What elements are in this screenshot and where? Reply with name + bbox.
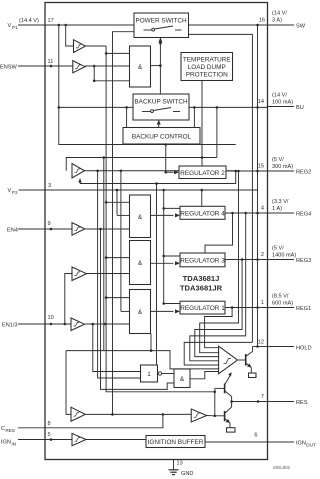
regulator 2 U-R2 bbox=[179, 166, 226, 179]
svg-text:OUT: OUT bbox=[306, 443, 316, 448]
wire mon REG3 bbox=[200, 171, 239, 353]
svg-text:15: 15 bbox=[258, 164, 264, 170]
wire G1 in1 bbox=[106, 52, 129, 54]
wire REG2 in arrow bbox=[165, 145, 167, 173]
wire ENSW row bbox=[45, 65, 73, 67]
wire G1 out bbox=[151, 65, 161, 67]
wire BC top feed bbox=[126, 107, 128, 127]
wire G5 out bbox=[162, 373, 174, 375]
svg-text:RES: RES bbox=[6, 428, 15, 433]
svg-text:TDA3681J: TDA3681J bbox=[183, 274, 220, 283]
svg-text:C: C bbox=[1, 426, 5, 432]
svg-text:(8.5 V/: (8.5 V/ bbox=[272, 294, 289, 300]
svg-text:ENSW: ENSW bbox=[0, 65, 18, 71]
svg-text:1: 1 bbox=[261, 300, 264, 306]
svg-text:4: 4 bbox=[261, 206, 264, 212]
svg-text:REGULATOR 2: REGULATOR 2 bbox=[180, 170, 225, 177]
wire trunk x103.8 bbox=[103, 158, 105, 351]
transistor Q2 (RES upper) bbox=[215, 372, 232, 401]
pin 5 stub IGNIN bbox=[1, 432, 51, 447]
svg-text:12: 12 bbox=[258, 340, 264, 346]
svg-text:3: 3 bbox=[48, 183, 51, 189]
wire CRES row bbox=[45, 414, 163, 427]
svg-text:TDA3681JR: TDA3681JR bbox=[180, 284, 223, 293]
node A3 enable arrow bbox=[79, 179, 81, 184]
pin 9 stub EN4 bbox=[7, 221, 51, 234]
svg-text:BACKUP CONTROL: BACKUP CONTROL bbox=[132, 134, 192, 141]
svg-text:5: 5 bbox=[48, 432, 51, 438]
wire G4 in1 bbox=[106, 297, 129, 299]
wire BC to BS arrow bbox=[158, 120, 160, 128]
svg-text:1400 mA): 1400 mA) bbox=[272, 253, 296, 259]
wire G2 in3 EN4 bbox=[85, 228, 129, 230]
svg-text:REGULATOR 3: REGULATOR 3 bbox=[180, 257, 225, 264]
svg-text:POWER SWITCH: POWER SWITCH bbox=[135, 18, 187, 25]
resistor R1 (Q1 emitter) bbox=[249, 373, 257, 378]
svg-text:11: 11 bbox=[48, 59, 54, 65]
svg-text:&: & bbox=[138, 64, 143, 71]
pin 14 stub BU bbox=[258, 93, 304, 112]
wire long row 350 bbox=[66, 351, 219, 369]
svg-text:2: 2 bbox=[261, 252, 264, 258]
buffer A1 (VP1) bbox=[66, 25, 86, 53]
and gate G2 bbox=[130, 195, 151, 238]
wire IGNIN row bbox=[45, 439, 72, 441]
wire REG2 out bbox=[226, 170, 268, 172]
wire G4 tap to long row bbox=[150, 334, 152, 351]
svg-text:IN: IN bbox=[12, 442, 17, 447]
svg-text:P2: P2 bbox=[12, 190, 18, 195]
svg-text:V: V bbox=[8, 23, 12, 29]
wire trunk x106.1 bbox=[106, 46, 215, 392]
wire G3 in1 bbox=[106, 257, 129, 259]
svg-text:TEMPERATURE: TEMPERATURE bbox=[183, 57, 231, 64]
schmitt trigger A6 (CRES) bbox=[191, 409, 206, 422]
pin 6 stub IGNOUT bbox=[254, 433, 316, 448]
wire RES row bbox=[232, 401, 268, 403]
transistor Q3 (RES lower) bbox=[215, 402, 232, 428]
transistor Q1 (HOLD driver) bbox=[246, 347, 253, 374]
pin 8 stub CRES bbox=[1, 421, 51, 433]
node A5 out bbox=[92, 323, 95, 326]
svg-text:17: 17 bbox=[48, 18, 54, 24]
svg-text:9: 9 bbox=[48, 221, 51, 227]
wire trunk x94.2 bbox=[93, 66, 95, 81]
wire REG4 out bbox=[225, 212, 268, 214]
wire VP2 buffered bbox=[85, 170, 236, 172]
svg-text:10: 10 bbox=[48, 315, 54, 321]
power switch U-PS bbox=[134, 13, 189, 38]
svg-text:EN1/3: EN1/3 bbox=[2, 323, 18, 329]
resistor R2 (Q3 emitter) bbox=[227, 428, 236, 432]
backup switch U-BS bbox=[133, 94, 189, 120]
wire G2 in2 bbox=[117, 214, 130, 216]
svg-text:13: 13 bbox=[177, 461, 183, 467]
pin 10 stub EN1/3 bbox=[2, 315, 54, 329]
pin 15 stub REG2 bbox=[258, 157, 311, 176]
wire REG3 top loop bbox=[205, 213, 233, 253]
op-amp U-CMP bbox=[219, 346, 238, 374]
wire G4 in2 bbox=[121, 310, 130, 312]
wire G1 in3 bbox=[94, 80, 129, 82]
svg-text:(5 V/: (5 V/ bbox=[272, 246, 284, 252]
wire BS input bbox=[59, 106, 133, 108]
wire PS aux out bbox=[189, 34, 253, 342]
ground pin 13 bbox=[169, 460, 194, 478]
svg-text:(14 V/: (14 V/ bbox=[272, 11, 287, 17]
wire EN4 row bbox=[45, 228, 72, 230]
wire REG3 top-left input bbox=[164, 255, 180, 257]
wire IGNOUT row bbox=[205, 441, 268, 443]
svg-text:REG1: REG1 bbox=[296, 306, 311, 312]
pin 17 stub VP1 bbox=[8, 18, 54, 30]
wire Q2Q3 base link bbox=[214, 388, 216, 415]
svg-text:IGN: IGN bbox=[1, 440, 11, 446]
svg-text:EN4: EN4 bbox=[7, 228, 18, 234]
wire A8 out bbox=[86, 439, 146, 441]
buffer A8 (IGNIN) bbox=[72, 433, 86, 445]
svg-text:16: 16 bbox=[259, 18, 265, 24]
wire A7 out row bbox=[85, 413, 191, 415]
buffer A3 (VP2) bbox=[72, 164, 85, 179]
wire x194 down bbox=[193, 107, 195, 127]
wire REG4 top-left input bbox=[164, 207, 180, 209]
and gate G1 bbox=[130, 46, 151, 87]
svg-text:GND: GND bbox=[181, 471, 193, 477]
wire G3 out to REG3 arrow bbox=[151, 262, 174, 264]
wire trunk x97.6 VP2buf to inverter bbox=[98, 171, 141, 378]
svg-text:REG3: REG3 bbox=[296, 258, 311, 264]
regulator 1 U-R1 bbox=[180, 301, 225, 314]
svg-text:8: 8 bbox=[48, 421, 51, 427]
wire PS control vertical bbox=[159, 38, 161, 95]
wire G3 in2 from EN1/3 via buffer bbox=[65, 274, 72, 325]
svg-text:(5 V/: (5 V/ bbox=[272, 157, 284, 163]
svg-text:IGN: IGN bbox=[296, 441, 306, 447]
wire REG3 out bbox=[225, 259, 268, 261]
pin 7 stub RES bbox=[261, 394, 308, 406]
regulator 3 U-R3 bbox=[180, 253, 225, 267]
wire trunk x92.8 EN13 to inverter bbox=[93, 324, 141, 372]
svg-text:BU: BU bbox=[296, 105, 304, 111]
buffer A9 (EN1/3 to REG3) bbox=[72, 267, 87, 281]
svg-text:6: 6 bbox=[254, 433, 257, 439]
wire TP down to REG2 top bbox=[201, 81, 203, 167]
svg-text:PROTECTION: PROTECTION bbox=[186, 72, 228, 79]
wire trunk x120.9 bbox=[120, 171, 122, 312]
wire VP1 row bbox=[45, 24, 134, 26]
svg-text:(3.3 V/: (3.3 V/ bbox=[272, 199, 289, 205]
wire G4 in3 EN1/3 bbox=[85, 323, 129, 325]
wire SW out row bbox=[189, 24, 268, 26]
ignition buffer U-IB bbox=[146, 436, 205, 448]
svg-text:HOLD: HOLD bbox=[296, 346, 312, 352]
svg-text:&: & bbox=[180, 376, 185, 383]
wire mon REG4 bbox=[195, 260, 242, 357]
wire EN1/3 row bbox=[45, 323, 71, 325]
wire trunk x113.4 bbox=[113, 32, 135, 415]
wire G2 out to REG4 arrow bbox=[151, 214, 174, 216]
wire VP2 row bbox=[45, 189, 258, 191]
pin 4 stub REG4 bbox=[261, 199, 311, 218]
pin 1 stub REG1 bbox=[261, 294, 311, 313]
wire REG1 top-left input bbox=[164, 303, 180, 305]
svg-text:P1: P1 bbox=[12, 25, 18, 30]
svg-text:REG4: REG4 bbox=[296, 212, 311, 218]
and gate G3 bbox=[130, 241, 151, 285]
svg-text:&: & bbox=[138, 309, 143, 316]
and gate G4 bbox=[130, 290, 151, 334]
wire ENSW buffered bbox=[85, 65, 130, 67]
wire HOLD row bbox=[253, 346, 268, 348]
svg-text:100 mA): 100 mA) bbox=[272, 100, 293, 106]
svg-text:REG2: REG2 bbox=[296, 170, 311, 176]
buffer A4 (EN4) bbox=[72, 223, 85, 236]
wire trunk x100.5 EN4 to G6 loop bbox=[101, 229, 175, 389]
svg-text:&: & bbox=[138, 214, 143, 221]
node VP1-a bbox=[58, 24, 61, 27]
svg-text:REGULATOR 1: REGULATOR 1 bbox=[180, 305, 225, 312]
svg-text:1: 1 bbox=[147, 371, 151, 378]
buffer A7 (CRES cap buffer) bbox=[71, 407, 85, 421]
wire A9 out bbox=[87, 273, 130, 275]
wire G2 in1 bbox=[106, 201, 129, 203]
svg-text:REGULATOR 4: REGULATOR 4 bbox=[180, 210, 225, 217]
pin 11 stub ENSW bbox=[0, 59, 53, 71]
wire monitor bus x257.5 bbox=[257, 25, 259, 347]
svg-text:600 mA): 600 mA) bbox=[272, 301, 293, 307]
wire BU out row bbox=[189, 106, 268, 108]
svg-text:300 mA): 300 mA) bbox=[272, 164, 293, 170]
wire A6 out bbox=[207, 415, 215, 417]
wire mon REG2 bbox=[190, 213, 246, 361]
wire row 157.5 bbox=[66, 158, 217, 171]
svg-text:IGNITION BUFFER: IGNITION BUFFER bbox=[148, 439, 204, 446]
regulator 4 U-R4 bbox=[180, 206, 225, 219]
pin 16 stub SW bbox=[259, 11, 306, 30]
svg-text:LOAD DUMP: LOAD DUMP bbox=[188, 64, 226, 71]
wire REG4 top feed bbox=[201, 190, 203, 206]
wire mon REG1 bbox=[205, 308, 233, 348]
svg-text:14: 14 bbox=[258, 99, 264, 105]
svg-text:7: 7 bbox=[261, 394, 264, 400]
and gate G6 bbox=[174, 369, 190, 388]
inverter G5 bbox=[141, 365, 162, 382]
pin 3 stub VP2 bbox=[8, 183, 52, 195]
buffer A5 (EN1/3) bbox=[71, 318, 85, 331]
wire x216 down bbox=[216, 107, 218, 157]
wire trunk x163.7 bbox=[163, 190, 165, 304]
svg-text:1 A): 1 A) bbox=[272, 206, 282, 212]
svg-text:MGL802: MGL802 bbox=[273, 465, 290, 470]
wire REG2 loop row 183.5 bbox=[80, 171, 236, 184]
temperature protection U-TP bbox=[181, 53, 233, 81]
wire trunk x117 bbox=[116, 190, 118, 215]
svg-text:3 A): 3 A) bbox=[272, 18, 282, 24]
svg-text:BACKUP SWITCH: BACKUP SWITCH bbox=[134, 99, 188, 106]
wire G4 out to REG1 arrow bbox=[151, 310, 174, 312]
wire mon SW bbox=[184, 342, 252, 365]
wire trunk x156.5 bbox=[156, 184, 158, 365]
IC outer border bbox=[45, 3, 268, 460]
wire CMP out bbox=[238, 359, 246, 361]
svg-text:V: V bbox=[8, 188, 12, 194]
wire long row to CRES buffer bbox=[66, 351, 71, 415]
backup control U-BC bbox=[123, 128, 200, 145]
svg-text:SW: SW bbox=[296, 24, 306, 30]
wire REG1 out bbox=[225, 307, 268, 309]
svg-text:RES: RES bbox=[296, 400, 308, 406]
pin 12 stub HOLD bbox=[258, 340, 312, 352]
wire row 144.5 bbox=[59, 25, 236, 145]
svg-text:&: & bbox=[138, 260, 143, 267]
node VP1-b bbox=[64, 24, 67, 27]
wire VP1 buffered bbox=[86, 45, 107, 47]
pin 2 stub REG3 bbox=[261, 246, 311, 265]
svg-text:(14.4 V): (14.4 V) bbox=[19, 18, 39, 24]
buffer A2 (ENSW) bbox=[73, 61, 85, 73]
svg-text:(14 V/: (14 V/ bbox=[272, 93, 287, 99]
wire G6 out bbox=[190, 372, 219, 379]
